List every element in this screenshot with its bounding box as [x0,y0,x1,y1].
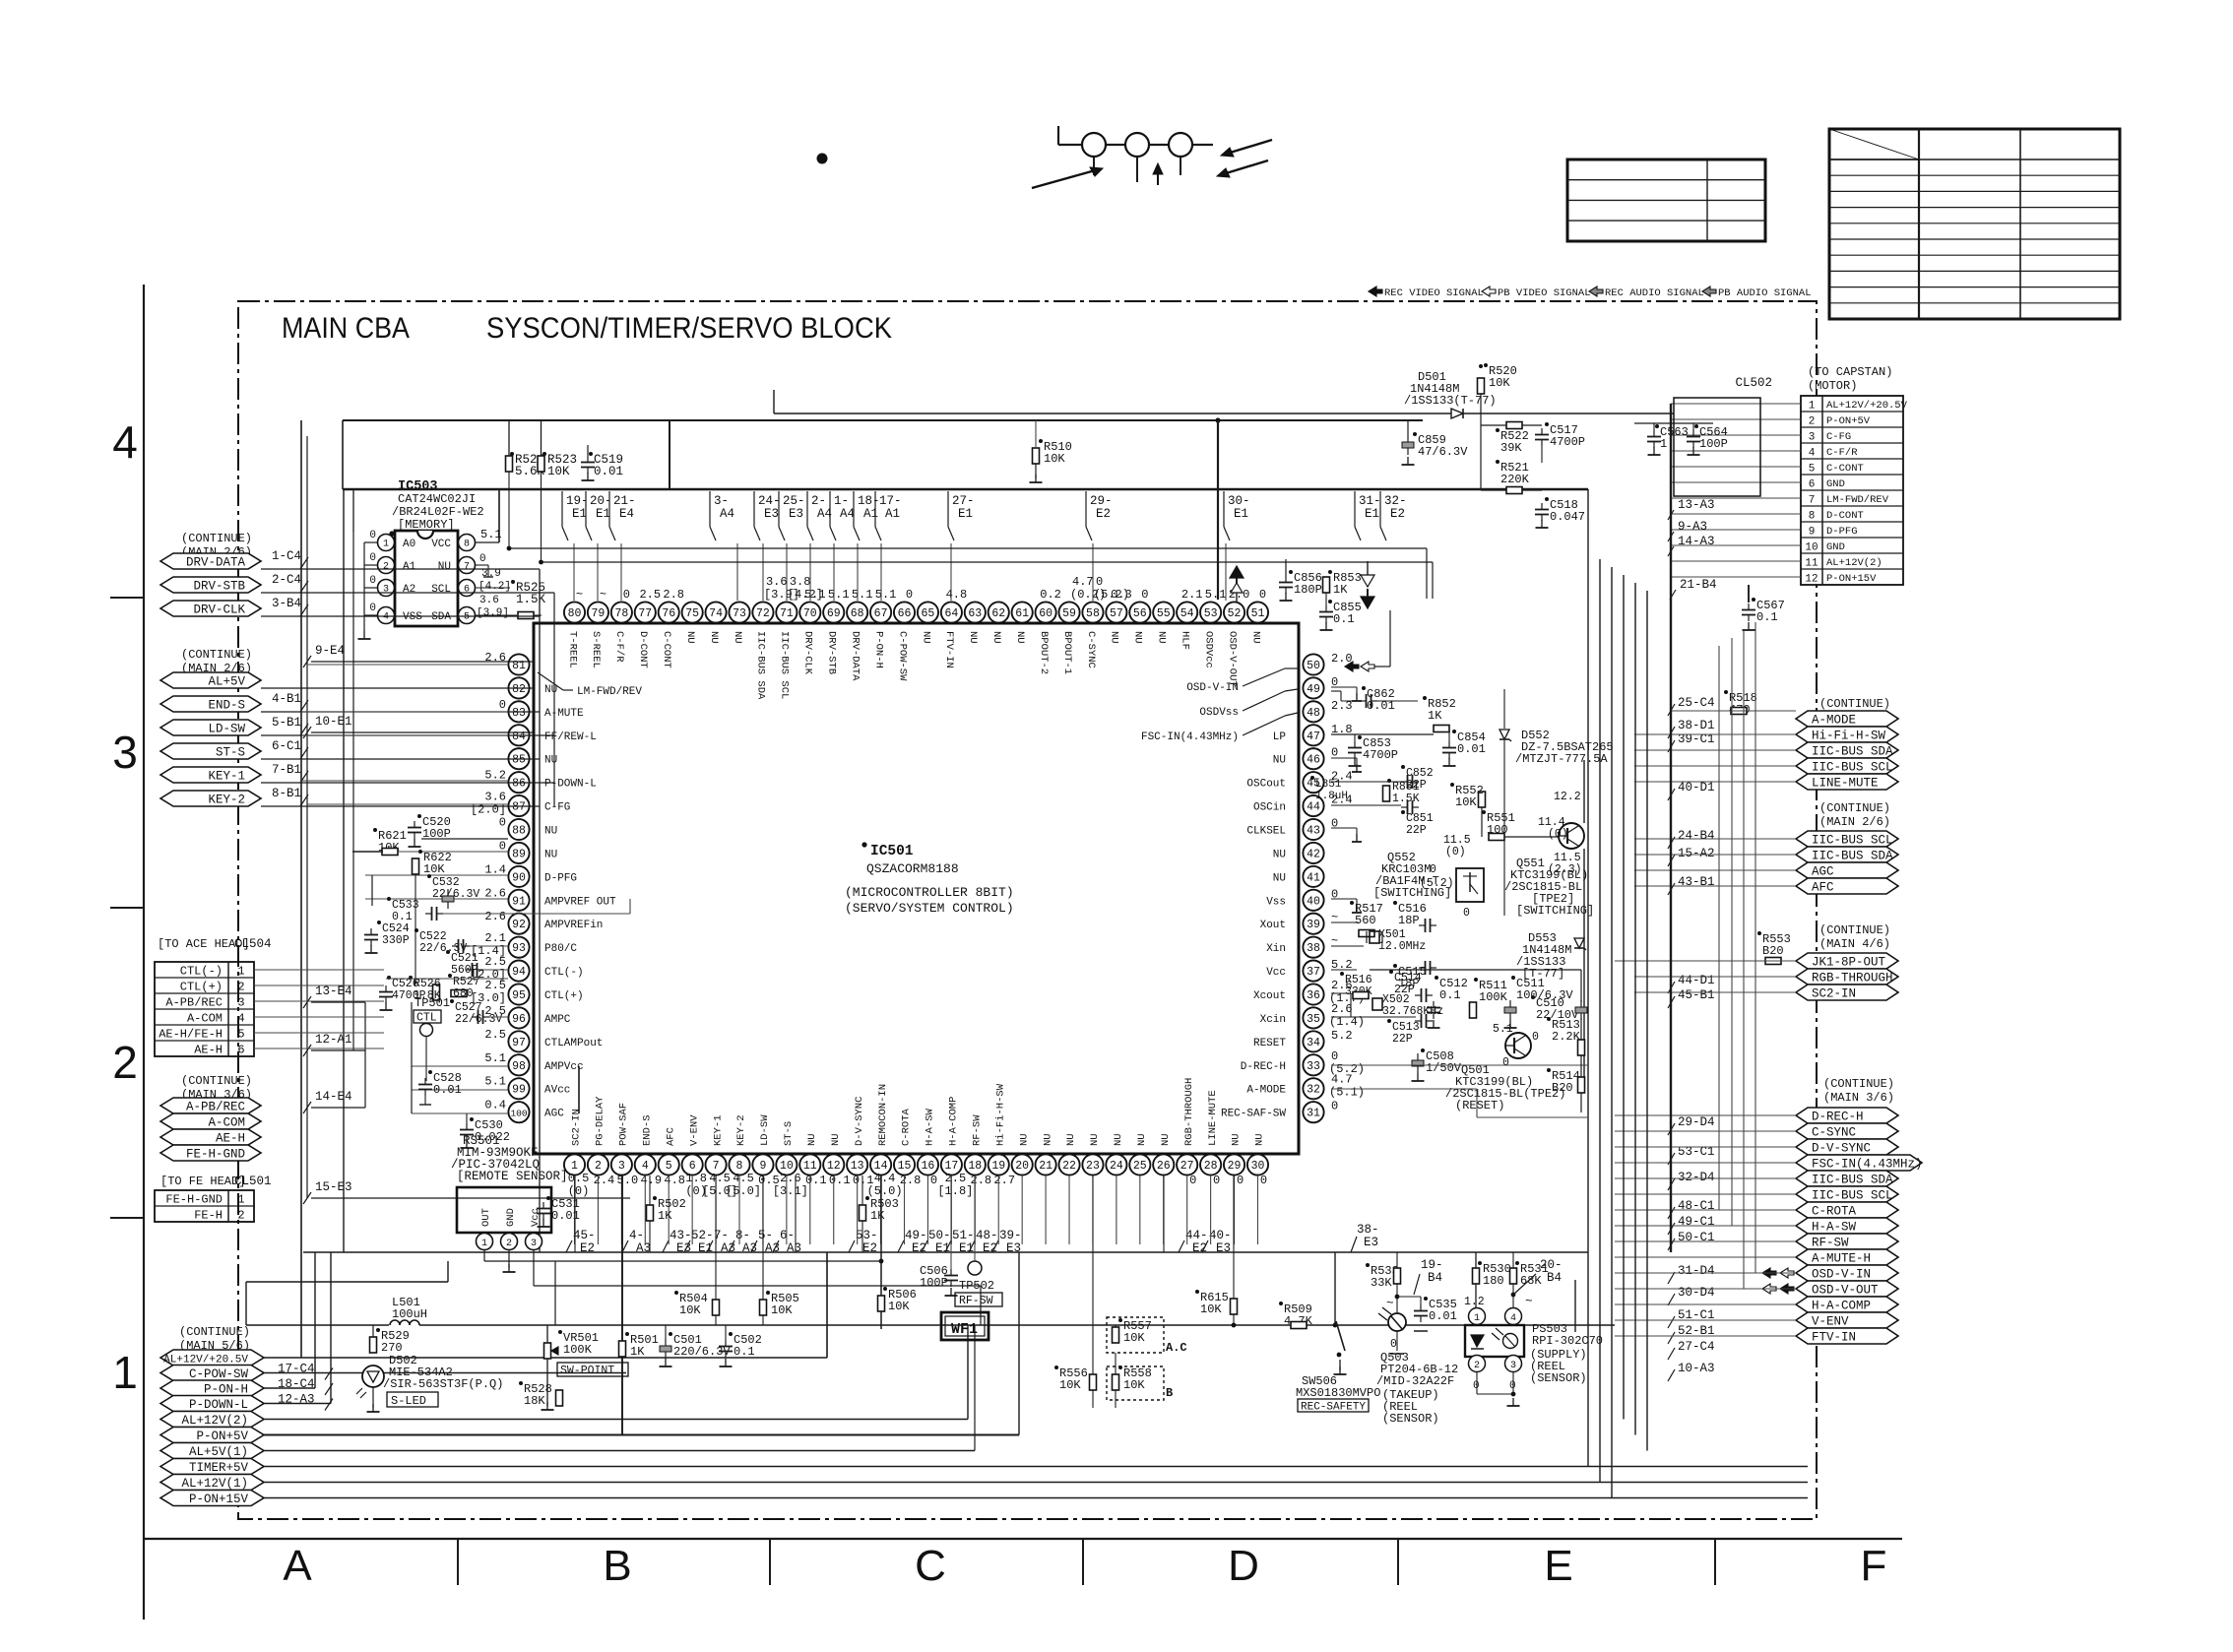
svg-text:15-A2: 15-A2 [1678,847,1715,860]
crystal X502 [1372,998,1382,1010]
svg-text:1K: 1K [1428,709,1442,723]
svg-text:P-ON+15V: P-ON+15V [189,1493,249,1506]
svg-text:0: 0 [1260,1174,1267,1187]
pin 8 KEY-2 [729,1154,749,1175]
svg-text:AGC: AGC [544,1109,564,1120]
svg-text:GND: GND [505,1208,517,1227]
svg-text:99: 99 [512,1084,526,1097]
node DRV-DATA [160,553,261,569]
pin 90 D-PFG [508,866,529,887]
svg-text:26: 26 [1157,1160,1171,1173]
svg-text:5.2: 5.2 [1331,1029,1353,1043]
pin 59 BPOUT-1 [1058,602,1079,622]
wire vertical 418 [411,1002,413,1113]
capacitor C512 [1435,976,1438,980]
node OSD-V-OUT [1796,1281,1898,1297]
svg-text:A1: A1 [885,507,900,521]
svg-text:/SIR-563ST3F(P.Q): /SIR-563ST3F(P.Q) [383,1377,503,1391]
svg-text:Hi-Fi-H-SW: Hi-Fi-H-SW [1812,730,1886,743]
svg-text:E1: E1 [596,507,610,521]
IC503 pin 1 A0 [378,535,395,551]
pin 39 Xout [1303,914,1323,934]
pin 100 AGC [508,1102,529,1122]
svg-text:LM-FWD/REV: LM-FWD/REV [577,686,642,698]
connector CL504 [155,962,254,1056]
svg-text:47/6.3V: 47/6.3V [1418,445,1468,459]
wire pin32 A-MODE to bus [1331,1088,1477,1090]
svg-text:4.8: 4.8 [946,588,968,602]
svg-text:4.4: 4.4 [874,1172,896,1185]
wire IC503 SCL/SDA [476,587,510,589]
resistor R504 [713,1300,720,1315]
svg-text:12-A3: 12-A3 [278,1393,315,1407]
svg-text:100: 100 [510,1109,527,1119]
svg-text:0: 0 [1189,1174,1196,1187]
svg-text:55: 55 [1157,607,1171,620]
svg-text:76: 76 [662,607,675,620]
svg-text:6: 6 [1809,479,1816,491]
svg-text:52-: 52- [691,1229,714,1242]
pin 85 NU [508,748,529,769]
connector CL501 [155,1190,254,1222]
svg-text:C-CONT: C-CONT [661,631,672,668]
node IIC-BUS SDA [1796,847,1898,862]
svg-text:49-C1: 49-C1 [1678,1215,1715,1229]
svg-text:64: 64 [944,607,958,620]
svg-text:OSD-V-IN: OSD-V-IN [1186,682,1239,694]
pin 32 A-MODE [1303,1078,1323,1099]
svg-text:2.1: 2.1 [484,931,506,945]
resistor R511 [1474,978,1478,982]
capacitor C527 [450,999,454,1003]
pin 72 IIC-BUS SDA [752,602,773,622]
svg-text:IIC-BUS SDA: IIC-BUS SDA [1812,745,1893,759]
pin 28 LINE-MUTE [1200,1154,1221,1175]
svg-text:C-F/R: C-F/R [613,631,625,663]
svg-text:V-ENV: V-ENV [1812,1315,1849,1329]
svg-text:NU: NU [544,684,557,696]
svg-text:100P: 100P [920,1276,948,1290]
svg-text:270: 270 [381,1341,403,1355]
svg-text:KEY-1: KEY-1 [208,770,245,784]
svg-text:18K: 18K [524,1394,545,1408]
svg-text:10: 10 [1805,542,1818,554]
svg-text:CL501: CL501 [234,1175,272,1188]
svg-text:C-ROTA: C-ROTA [901,1108,913,1146]
svg-text:4.9: 4.9 [640,1174,662,1187]
svg-text:[MEMORY]: [MEMORY] [398,518,455,532]
svg-text:25-C4: 25-C4 [1678,696,1715,710]
svg-text:4700P: 4700P [1550,435,1585,449]
svg-text:1.2: 1.2 [1464,1296,1485,1308]
wire IC503 NU stub [476,564,488,566]
svg-text:10K: 10K [1489,376,1510,390]
resistor R514 [1547,1068,1551,1072]
svg-text:7: 7 [464,562,470,573]
svg-text:LINE-MUTE: LINE-MUTE [1207,1090,1219,1146]
pin 13 D-V-SYNC [847,1154,867,1175]
svg-text:6-C1: 6-C1 [272,739,301,753]
wires above IC503 [343,419,1423,421]
svg-text:(MAIN 3/6): (MAIN 3/6) [1823,1091,1894,1105]
capacitor C502 [719,1346,733,1348]
svg-text:A1: A1 [863,507,878,521]
svg-text:NU: NU [1160,1133,1172,1146]
pin 68 DRV-DATA [847,602,867,622]
pin 57 NU [1106,602,1126,622]
svg-text:NU: NU [544,826,557,838]
svg-text:MXS01830MVPO: MXS01830MVPO [1296,1386,1380,1400]
svg-text:97: 97 [512,1037,526,1049]
svg-text:32: 32 [1307,1084,1320,1097]
svg-text:NU: NU [708,631,720,644]
pin 93 P80/C [508,937,529,958]
node ST-S [160,743,261,759]
svg-text:AVcc: AVcc [544,1085,570,1097]
pin 11 NU [799,1154,820,1175]
svg-text:A.C: A.C [1166,1341,1187,1355]
svg-text:OSD-V-IN: OSD-V-IN [1812,1268,1871,1282]
svg-text:DRV-DATA: DRV-DATA [849,631,861,681]
svg-text:JK1-8P-OUT: JK1-8P-OUT [1812,956,1886,970]
svg-text:5-B1: 5-B1 [272,716,301,730]
node OSD-V-IN [1796,1265,1898,1281]
node A-MUTE-H [1796,1249,1898,1265]
wires reset area [1330,946,1332,970]
pin 66 C-POW-SW [894,602,915,622]
svg-text:27-C4: 27-C4 [1678,1340,1715,1354]
svg-text:42: 42 [1307,848,1320,860]
svg-text:0: 0 [369,552,376,564]
svg-text:3.6: 3.6 [479,595,499,606]
svg-text:2: 2 [383,562,389,573]
svg-text:14-E4: 14-E4 [315,1090,352,1104]
signal legend [1369,286,1382,296]
svg-text:C-ROTA: C-ROTA [1812,1205,1857,1219]
svg-text:(2.3): (2.3) [1548,863,1582,876]
svg-text:12.0MHz: 12.0MHz [1378,940,1426,953]
svg-text:0: 0 [1502,1056,1509,1069]
svg-text:OSD-V-OUT: OSD-V-OUT [1226,631,1238,687]
svg-text:NU: NU [1132,631,1144,644]
node AGC [1796,862,1898,878]
svg-text:35: 35 [1307,1013,1320,1026]
pin 27 RGB-THROUGH [1177,1154,1197,1175]
svg-text:10K: 10K [1200,1303,1222,1316]
svg-text:59: 59 [1062,607,1076,620]
svg-text:B4: B4 [1547,1271,1562,1285]
svg-text:GND: GND [1826,541,1845,553]
svg-text:AFC: AFC [665,1127,676,1146]
svg-text:73: 73 [733,607,746,620]
svg-text:0: 0 [623,588,630,602]
resistor R556 [1090,1374,1097,1390]
transistor Q552 package [1456,868,1484,902]
svg-text:1.5K: 1.5K [1392,793,1420,805]
node DRV-CLK [160,601,261,616]
svg-text:(RESET): (RESET) [1455,1099,1504,1112]
svg-text:17-: 17- [879,494,902,508]
wire stubs IC left [307,664,508,666]
svg-text:FSC-IN(4.43MHz): FSC-IN(4.43MHz) [1141,731,1239,743]
svg-text:C-SYNC: C-SYNC [1812,1126,1856,1140]
svg-text:9: 9 [1809,527,1816,539]
pin 92 AMPVREFin [508,914,529,934]
svg-text:DRV-STB: DRV-STB [193,580,245,594]
resistor R851 [1383,786,1390,801]
svg-text:AFC: AFC [1812,881,1834,895]
svg-text:13-A3: 13-A3 [1678,498,1715,512]
svg-text:E2: E2 [912,1241,926,1255]
sketch arrow 1 [1032,169,1099,188]
svg-text:98: 98 [512,1060,526,1073]
pin 6 V-ENV [682,1154,703,1175]
resistor R509 [1279,1302,1283,1305]
IC503 part label [389,531,394,536]
node RGB-THROUGH [1796,969,1898,985]
svg-text:NU: NU [1109,631,1120,644]
svg-text:65: 65 [922,607,935,620]
svg-text:66: 66 [898,607,912,620]
resistor R516 [1340,972,1344,976]
svg-text:51-: 51- [952,1229,975,1242]
pin 5 AFC [659,1154,679,1175]
svg-text:T-REEL: T-REEL [566,631,578,668]
svg-text:A0: A0 [403,539,415,550]
pin 21 NU [1036,1154,1056,1175]
node D-REC-H [1796,1108,1898,1123]
svg-text:1: 1 [1660,437,1667,451]
node AL+5V(1) [160,1443,264,1459]
svg-text:(MOTOR): (MOTOR) [1808,379,1857,393]
svg-text:1K: 1K [870,1209,885,1223]
pin 91 AMPVREF OUT [508,890,529,911]
svg-text:NU: NU [1136,1133,1148,1146]
resistor R527 [451,990,467,997]
svg-text:3: 3 [618,1160,625,1173]
svg-text:NU: NU [1273,849,1286,860]
wire verticals below IC [574,1175,576,1252]
svg-text:37: 37 [1307,966,1320,979]
svg-text:OSCout: OSCout [1246,779,1286,791]
svg-text:P-ON-H: P-ON-H [872,631,884,668]
pin 70 DRV-CLK [799,602,820,622]
svg-text:RF-SW: RF-SW [972,1114,984,1146]
svg-text:17-C4: 17-C4 [278,1363,315,1376]
connector CL502 [1801,396,1903,585]
svg-text:[4.2]: [4.2] [478,581,511,593]
svg-text:20: 20 [1015,1160,1029,1173]
svg-text:0.1: 0.1 [1333,612,1355,626]
pin 77 D-CONT [635,602,656,622]
svg-text:3-: 3- [714,494,729,508]
resistor R533 [1366,1263,1370,1267]
svg-text:53: 53 [1204,607,1218,620]
svg-text:2.6: 2.6 [484,910,506,923]
svg-text:24: 24 [1110,1160,1123,1173]
svg-text:1-: 1- [834,494,849,508]
svg-text:0: 0 [1463,907,1470,920]
pin 99 AVcc [508,1078,529,1099]
node AL+12V(2) [160,1412,264,1428]
svg-text:AL+12V(2): AL+12V(2) [181,1414,248,1428]
svg-text:B: B [1166,1386,1173,1400]
svg-text:39: 39 [1307,919,1320,931]
svg-text:(CONTINUE): (CONTINUE) [1819,697,1890,711]
svg-text:5: 5 [1809,464,1816,476]
svg-text:12: 12 [1805,574,1818,586]
capacitor C519 [581,462,595,464]
down arrows right [1361,575,1374,587]
pin 63 NU [965,602,986,622]
svg-text:FE-H-GND: FE-H-GND [165,1193,223,1207]
svg-text:4: 4 [1809,448,1816,460]
capacitor C533 [387,897,391,901]
svg-text:E2: E2 [862,1241,877,1255]
WF1 box [941,1312,989,1340]
parts table large [1829,129,2120,319]
svg-text:E4: E4 [619,507,634,521]
svg-text:21-B4: 21-B4 [1680,578,1717,592]
svg-text:LP: LP [1273,731,1287,743]
svg-text:SC2-IN: SC2-IN [1812,987,1856,1001]
svg-text:BPOUT-2: BPOUT-2 [1038,631,1050,674]
capacitor C501 [660,1346,671,1352]
svg-text:END-S: END-S [208,699,245,713]
resistor R505 [760,1300,767,1315]
pin 42 NU [1303,843,1323,863]
pin 76 C-CONT [659,602,679,622]
svg-text:AMPVREF OUT: AMPVREF OUT [544,896,616,908]
svg-text:3.9: 3.9 [481,568,501,580]
svg-text:5.1: 5.1 [484,1051,506,1065]
node H-A-COMP [1796,1297,1898,1312]
svg-text:0.01: 0.01 [1429,1309,1457,1323]
resistor R503 [860,1205,866,1221]
capacitor C859 [1402,442,1414,448]
svg-text:220K: 220K [1500,473,1530,486]
svg-text:[T-77]: [T-77] [1522,967,1564,981]
svg-text:2: 2 [237,981,244,994]
pin 24 NU [1106,1154,1126,1175]
svg-text:[1.8]: [1.8] [937,1184,973,1198]
pin 51 NU [1247,602,1268,622]
IC501 part label [861,842,866,847]
svg-text:AMPC: AMPC [544,1014,571,1026]
pin 36 Xcout [1303,984,1323,1004]
resistor R530 [1478,1261,1482,1265]
svg-text:E2: E2 [1390,507,1405,521]
capacitor C517 [1535,434,1549,436]
svg-text:NU: NU [967,631,979,644]
svg-text:0: 0 [1096,575,1103,589]
svg-text:0: 0 [1213,1174,1220,1187]
resistor R557 select [1107,1317,1164,1353]
capacitor C563 [1647,436,1661,438]
svg-text:E2: E2 [580,1241,595,1255]
resistor R552 [1479,792,1486,807]
resistor R853 [1323,577,1330,593]
svg-text:30: 30 [1251,1160,1265,1173]
svg-text:E3: E3 [1216,1241,1231,1255]
svg-text:A-PB/REC: A-PB/REC [165,996,223,1010]
svg-text:REC-SAF-SW: REC-SAF-SW [1221,1109,1286,1120]
svg-text:0.01: 0.01 [594,465,623,478]
svg-text:(CONTINUE): (CONTINUE) [1819,801,1890,815]
crystal X501 [1370,931,1379,943]
svg-text:RGB-THROUGH: RGB-THROUGH [1183,1078,1195,1146]
svg-text:18-: 18- [858,494,880,508]
wires lower mid [554,1261,556,1325]
svg-text:BPOUT-1: BPOUT-1 [1061,631,1073,674]
svg-text:1-C4: 1-C4 [272,549,301,563]
svg-text:SW-POINT: SW-POINT [560,1365,614,1377]
svg-text:62: 62 [991,607,1005,620]
svg-text:FF/REW-L: FF/REW-L [544,731,597,743]
resistor R517 [1350,901,1354,905]
svg-text:TP501: TP501 [415,996,450,1010]
pin 31 REC-SAF-SW [1303,1102,1323,1122]
drawing frame left axis [143,285,145,1620]
svg-text:4: 4 [642,1160,649,1173]
node DRV-STB [160,577,261,593]
node C-ROTA [1796,1202,1898,1218]
capacitor C854 [1442,747,1456,749]
svg-text:56: 56 [1133,607,1147,620]
svg-text:79: 79 [592,607,606,620]
svg-text:PB VIDEO SIGNAL: PB VIDEO SIGNAL [1498,287,1591,299]
svg-text:A-COM: A-COM [187,1012,223,1026]
svg-text:(SENSOR): (SENSOR) [1530,1371,1587,1385]
svg-text:43-: 43- [670,1229,692,1242]
svg-text:80: 80 [568,607,582,620]
svg-text:34: 34 [1307,1037,1320,1049]
svg-text:4.5: 4.5 [709,1172,731,1185]
svg-text:/MID-32A22F: /MID-32A22F [1376,1374,1454,1388]
svg-text:3.8: 3.8 [790,575,811,589]
pin 12 NU [823,1154,844,1175]
svg-text:0: 0 [1237,1174,1244,1187]
pin 45 OSCout [1303,772,1323,793]
node H-A-SW [1796,1218,1898,1234]
svg-text:D-CONT: D-CONT [637,631,649,668]
svg-text:RPI-302C70: RPI-302C70 [1532,1334,1603,1348]
svg-text:33: 33 [1307,1060,1320,1073]
svg-text:0: 0 [1331,1100,1338,1113]
wire verticals left bus [300,563,302,1358]
svg-text:KEY-2: KEY-2 [208,794,245,807]
pin 74 NU [705,602,726,622]
svg-text:21: 21 [1039,1160,1053,1173]
svg-text:B20: B20 [1762,944,1784,958]
svg-text:0.1: 0.1 [1756,610,1778,624]
svg-text:31-: 31- [1359,494,1381,508]
svg-text:C-SYNC: C-SYNC [1085,631,1097,668]
svg-text:8: 8 [464,540,470,550]
svg-text:END-S: END-S [641,1114,653,1146]
svg-text:90: 90 [512,871,526,884]
capacitor C530 [460,1129,474,1131]
svg-text:S-REEL: S-REEL [590,631,602,668]
IC503 pin 7 NU [459,557,476,574]
svg-text:PG-DELAY: PG-DELAY [595,1096,606,1146]
svg-text:2.5: 2.5 [484,1028,506,1042]
capacitor C510 [1531,995,1535,999]
svg-text:C-F/R: C-F/R [1826,447,1858,459]
svg-text:AMPVREFin: AMPVREFin [544,920,603,931]
IC503 left ground [363,542,365,631]
svg-text:36: 36 [1307,989,1320,1002]
